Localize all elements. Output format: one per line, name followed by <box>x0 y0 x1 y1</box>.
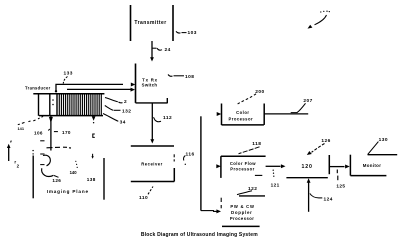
svg-text:Switch: Switch <box>142 83 158 88</box>
transmitter box (Transmitter 103) <box>131 5 174 41</box>
label 138 with tick <box>87 154 96 182</box>
svg-text:132: 132 <box>122 109 131 115</box>
svg-text:Processor: Processor <box>229 116 254 121</box>
svg-text:112: 112 <box>163 115 172 121</box>
dashed beam edge segments mid <box>40 141 44 165</box>
wire scan converter to monitor <box>330 165 350 169</box>
label 110 leader <box>139 187 153 202</box>
label 2 leader (element ref) <box>105 98 127 106</box>
svg-text:Imaging Plane: Imaging Plane <box>47 189 89 194</box>
svg-text:103: 103 <box>188 30 197 36</box>
wire color flow proc to scan converter <box>266 164 286 168</box>
dashed beam edge down-left <box>18 115 44 124</box>
label 207 leader <box>291 98 313 112</box>
svg-text:133: 133 <box>64 71 73 77</box>
label 103 leader <box>176 30 197 36</box>
label 122 leader <box>237 186 257 195</box>
wire transducer lower to TR switch <box>67 88 135 92</box>
wire TR switch to receiver <box>150 103 154 144</box>
svg-text:24: 24 <box>165 47 171 53</box>
svg-text:126: 126 <box>52 178 61 183</box>
svg-text:130: 130 <box>379 137 388 143</box>
svg-text:125: 125 <box>336 184 345 189</box>
svg-text:138: 138 <box>87 177 96 182</box>
label 34 leader <box>103 114 126 126</box>
label 126 leader (scan converter) <box>307 138 331 155</box>
label 130 leader <box>368 137 388 154</box>
label 133 leader <box>63 71 73 84</box>
label 106 leader <box>34 129 50 135</box>
arrow down-right from transducer <box>92 116 96 137</box>
color flow processor box (118) <box>221 156 266 178</box>
label 170 leader <box>54 130 71 135</box>
leader curl lower to 126 <box>42 168 59 177</box>
svg-text:106: 106 <box>34 130 43 135</box>
svg-text:118: 118 <box>252 141 261 147</box>
figure ref 100 arrow top right <box>308 11 330 29</box>
wire 207 from color processor <box>264 113 308 115</box>
svg-text:2: 2 <box>124 99 127 105</box>
svg-text:108: 108 <box>185 74 194 80</box>
svg-text:141: 141 <box>18 126 25 131</box>
wire down-left from transducer <box>49 116 53 151</box>
label 124 leader <box>310 194 333 203</box>
imaging plane top dashed edge <box>47 146 72 149</box>
leader curl upper (126 arc) <box>43 155 50 166</box>
svg-text:Processor: Processor <box>230 166 255 171</box>
label 132 leader <box>105 106 132 115</box>
svg-text:116: 116 <box>186 151 195 157</box>
label 112 leader <box>154 115 173 122</box>
svg-text:Transmitter: Transmitter <box>134 20 166 26</box>
svg-text:126: 126 <box>321 138 330 144</box>
label 125 leader <box>336 170 345 189</box>
label 121 leader <box>271 170 280 188</box>
label 24 leader <box>153 47 171 53</box>
svg-text:PW & CW: PW & CW <box>230 204 254 209</box>
svg-text:200: 200 <box>255 89 264 95</box>
scan converter remnants (120) <box>286 155 329 178</box>
arrow into color flow proc <box>216 164 221 168</box>
svg-text:Transducer: Transducer <box>25 86 51 91</box>
svg-text:124: 124 <box>324 196 333 202</box>
svg-text:120: 120 <box>302 164 313 170</box>
wire transmitter to TR switch <box>150 41 154 62</box>
svg-text:Processor: Processor <box>230 216 255 221</box>
dotted leader to 140 <box>75 161 78 168</box>
svg-text:122: 122 <box>248 186 257 192</box>
transducer array <box>33 94 104 116</box>
label 118 leader <box>239 141 262 154</box>
transducer element hatch lines <box>59 94 101 116</box>
svg-text:Block Diagram of Ultrasound Im: Block Diagram of Ultrasound Imaging Syst… <box>141 232 258 238</box>
svg-text:Monitor: Monitor <box>363 163 382 168</box>
label 116 leader <box>184 151 195 165</box>
svg-text:Color: Color <box>236 110 249 115</box>
svg-text:140: 140 <box>70 170 78 175</box>
svg-text:121: 121 <box>271 182 280 187</box>
imaging plane right edge <box>103 158 105 200</box>
doppler processor box (122) <box>221 196 265 227</box>
imaging plane left edge <box>32 150 33 198</box>
bus wire from receiver area down <box>201 116 214 210</box>
arrow into color processor <box>217 112 222 116</box>
svg-text:34: 34 <box>120 120 126 126</box>
label 108 leader <box>168 74 194 80</box>
svg-text:170: 170 <box>62 130 71 135</box>
svg-text:Doppler: Doppler <box>231 210 253 215</box>
monitor box (130) <box>350 155 397 176</box>
TR switch box (Tx Rx Switch 108) <box>136 64 168 104</box>
svg-text:110: 110 <box>139 195 148 201</box>
wire transducer upper to TR switch <box>55 83 136 93</box>
svg-text:207: 207 <box>303 98 312 104</box>
arrow into doppler box <box>213 209 221 213</box>
axis arrow (far left) <box>7 141 20 169</box>
label 200 leader <box>238 89 265 104</box>
receiver box (Receiver 110) <box>131 146 175 182</box>
color processor box (200) <box>222 104 265 126</box>
wire from below into scan converter <box>307 178 311 212</box>
svg-text:Receiver: Receiver <box>141 162 162 167</box>
